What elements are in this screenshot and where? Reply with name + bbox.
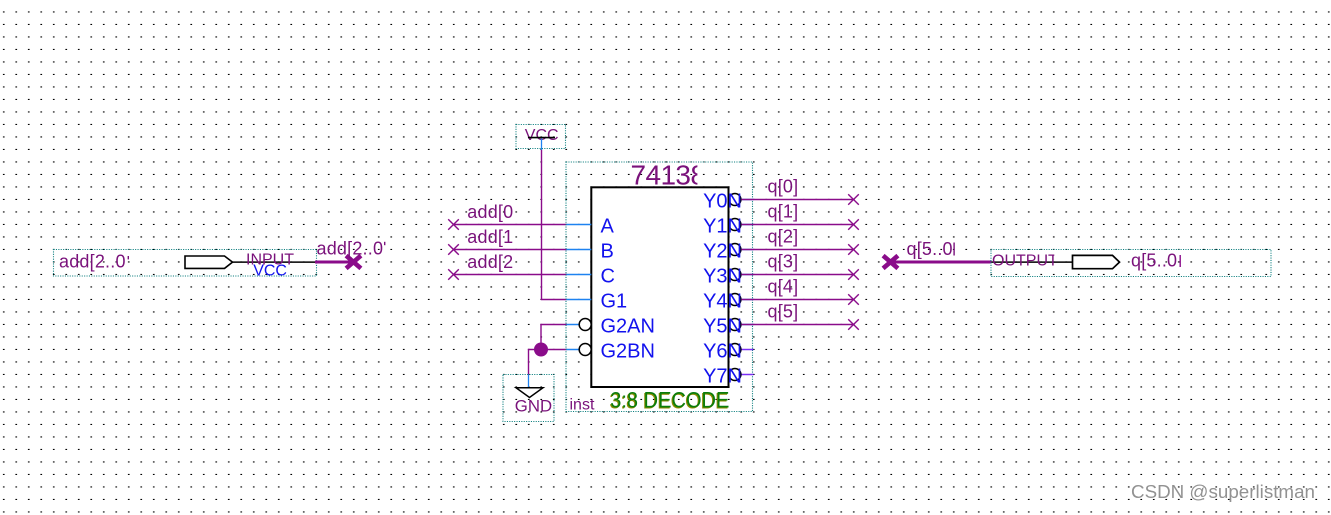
svg-text:VCC: VCC <box>253 263 287 280</box>
svg-text:CSDN @superlistman: CSDN @superlistman <box>1131 481 1315 502</box>
svg-text:Y6N: Y6N <box>703 341 742 363</box>
svg-text:G2AN: G2AN <box>601 316 655 338</box>
svg-text:G2BN: G2BN <box>601 341 655 363</box>
svg-text:B: B <box>601 241 614 263</box>
svg-text:G1: G1 <box>601 291 628 313</box>
svg-text:Y3N: Y3N <box>703 266 742 288</box>
svg-text:C: C <box>601 266 615 288</box>
svg-text:Y4N: Y4N <box>703 291 742 313</box>
svg-text:Y1N: Y1N <box>703 216 742 238</box>
svg-text:q[2]: q[2] <box>768 227 799 247</box>
svg-text:3:8 DECODER: 3:8 DECODER <box>610 388 744 413</box>
svg-text:Y0N: Y0N <box>703 191 742 213</box>
svg-text:q[3]: q[3] <box>768 252 799 272</box>
svg-text:GND: GND <box>515 397 552 416</box>
svg-text:add[2..0: add[2..0 <box>59 251 126 271</box>
svg-text:add[1: add[1 <box>467 227 513 247</box>
svg-text:inst: inst <box>570 396 595 413</box>
svg-text:q[4]: q[4] <box>768 277 799 297</box>
svg-text:q[0]: q[0] <box>768 177 799 197</box>
svg-text:Y7N: Y7N <box>703 366 742 388</box>
svg-text:74138: 74138 <box>631 160 706 191</box>
svg-text:add[0: add[0 <box>467 202 513 222</box>
svg-text:q[5..0: q[5..0 <box>907 239 953 259</box>
svg-text:q[1]: q[1] <box>768 202 799 222</box>
svg-text:Y2N: Y2N <box>703 241 742 263</box>
svg-text:Y5N: Y5N <box>703 316 742 338</box>
svg-text:add[2: add[2 <box>467 252 513 272</box>
svg-text:add[2..0: add[2..0 <box>317 238 384 258</box>
svg-text:OUTPUT: OUTPUT <box>992 253 1058 270</box>
svg-text:q[5..0: q[5..0 <box>1131 250 1177 270</box>
svg-text:q[5]: q[5] <box>768 302 799 322</box>
svg-text:A: A <box>601 216 615 238</box>
